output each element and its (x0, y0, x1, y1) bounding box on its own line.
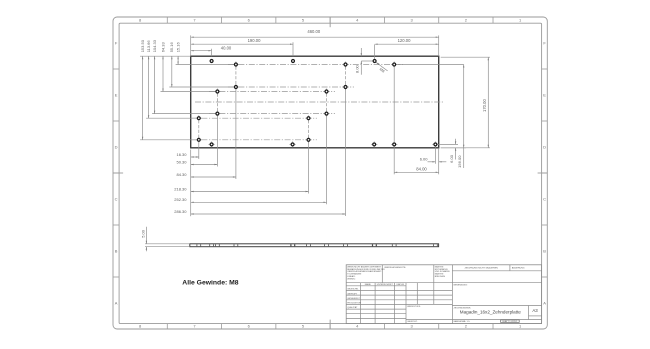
svg-text:BENENNUNG:: BENENNUNG: (454, 285, 468, 287)
svg-text:ÄNDERUNG: ÄNDERUNG (512, 266, 525, 269)
svg-text:6.00: 6.00 (449, 154, 454, 163)
svg-text:GENEHMIGT: GENEHMIGT (347, 298, 360, 300)
svg-text:PRODUKTION: PRODUKTION (347, 303, 361, 305)
svg-text:DATUM: DATUM (397, 283, 405, 286)
svg-text:84.00: 84.00 (416, 167, 427, 172)
svg-text:F: F (543, 41, 546, 46)
svg-text:B: B (115, 249, 118, 254)
svg-text:GEPRÜFT: GEPRÜFT (347, 292, 358, 295)
svg-text:5: 5 (302, 18, 305, 23)
svg-text:3: 3 (410, 18, 413, 23)
svg-text:55.16: 55.16 (169, 42, 174, 53)
svg-text:8: 8 (139, 18, 142, 23)
svg-text:BLATT 1 VON 1: BLATT 1 VON 1 (502, 320, 518, 323)
svg-text:64.33: 64.33 (160, 42, 165, 53)
svg-text:F: F (115, 41, 118, 46)
svg-text:6.00: 6.00 (420, 156, 429, 161)
svg-text:E: E (543, 93, 546, 98)
svg-text:5: 5 (302, 324, 305, 329)
svg-text:2: 2 (465, 324, 468, 329)
svg-text:E: E (115, 93, 118, 98)
svg-text:UNTERSCHRIFT: UNTERSCHRIFT (377, 284, 394, 286)
svg-text:C: C (115, 197, 118, 202)
svg-text:1: 1 (519, 18, 522, 23)
svg-text:A3: A3 (532, 308, 538, 313)
svg-text:7: 7 (193, 18, 196, 23)
svg-text:84.30: 84.30 (176, 172, 187, 177)
svg-text:8: 8 (139, 324, 142, 329)
svg-text:286.30: 286.30 (174, 209, 187, 214)
svg-text:Alle Gewinde: M8: Alle Gewinde: M8 (182, 280, 238, 287)
svg-text:190.00: 190.00 (248, 38, 261, 43)
svg-text:D: D (115, 145, 118, 150)
svg-text:16.30: 16.30 (176, 152, 187, 157)
svg-text:C: C (543, 197, 546, 202)
svg-text:4: 4 (356, 18, 359, 23)
svg-text:5.00: 5.00 (140, 229, 145, 238)
svg-text:WINKEL:: WINKEL: (347, 278, 356, 280)
svg-text:B: B (543, 249, 546, 254)
svg-text:104.33: 104.33 (152, 39, 157, 52)
svg-text:8.00: 8.00 (354, 64, 359, 73)
svg-text:OBERFLÄCHENGÜTE:: OBERFLÄCHENGÜTE: (384, 266, 406, 269)
svg-text:1: 1 (519, 324, 522, 329)
svg-text:2: 2 (465, 18, 468, 23)
svg-text:A: A (543, 301, 546, 306)
svg-text:WERKSTOFF:: WERKSTOFF: (407, 306, 421, 308)
svg-text:NAME: NAME (365, 283, 372, 286)
svg-text:BRECHEN: BRECHEN (435, 276, 446, 278)
svg-text:A: A (115, 301, 118, 306)
svg-text:218.30: 218.30 (174, 186, 187, 191)
svg-text:D: D (543, 145, 546, 150)
svg-text:156.00: 156.00 (457, 155, 462, 168)
svg-text:6: 6 (248, 324, 251, 329)
svg-text:7: 7 (193, 324, 196, 329)
svg-text:MASSSTAB: 1:5: MASSSTAB: 1:5 (454, 320, 471, 323)
svg-text:252.30: 252.30 (174, 197, 187, 202)
svg-text:15.16: 15.16 (175, 42, 180, 53)
svg-text:ZEICHNUNG NICHT SKALIEREN: ZEICHNUNG NICHT SKALIEREN (465, 266, 499, 269)
svg-text:170.00: 170.00 (482, 99, 487, 112)
svg-text:GEZEICHN.: GEZEICHN. (347, 289, 359, 291)
svg-text:40.00: 40.00 (221, 45, 232, 50)
svg-text:6: 6 (248, 18, 251, 23)
svg-text:3: 3 (410, 324, 413, 329)
svg-text:120.00: 120.00 (398, 38, 411, 43)
svg-text:113.66: 113.66 (146, 40, 151, 53)
svg-text:460.00: 460.00 (307, 29, 320, 34)
svg-text:QUALITÄT: QUALITÄT (347, 306, 358, 309)
svg-text:153.50: 153.50 (140, 39, 145, 52)
svg-text:4: 4 (356, 324, 359, 329)
svg-text:GEWICHT:: GEWICHT: (407, 321, 418, 323)
svg-text:Magadin_16x2_Zehnderplatte: Magadin_16x2_Zehnderplatte (460, 310, 521, 315)
svg-text:50.30: 50.30 (176, 159, 187, 164)
